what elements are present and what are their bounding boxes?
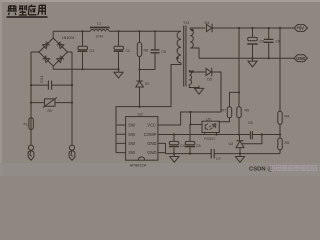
node: CX1-left junction (30, 84, 32, 86)
wire: SW pin stubs (116, 125, 126, 153)
node: C4 top (173, 133, 175, 135)
capacitor CY (Y-cap) (211, 149, 214, 159)
wire: clamp node (140, 69, 156, 71)
svg-text:D5: D5 (207, 78, 212, 82)
resistor R4 (279, 28, 281, 138)
svg-text:TX1: TX1 (183, 21, 190, 25)
wire: D5 to VCC drop (212, 72, 221, 112)
secondary winding (output) (190, 30, 193, 49)
svg-text:U2: U2 (229, 142, 234, 146)
diode D5 (206, 68, 212, 76)
capacitor C3 (82, 31, 84, 69)
node: primary phase dot (176, 57, 179, 60)
ground: output (248, 58, 257, 67)
svg-text:SW: SW (128, 123, 135, 128)
wire: opto emitter stub (204, 133, 206, 135)
bridge diode D2 (right-top arm) (57, 42, 64, 49)
svg-text:VCC: VCC (147, 123, 156, 128)
wire: left AC vertical (30, 52, 32, 145)
svg-text:R4: R4 (285, 115, 290, 119)
svg-text:C6: C6 (248, 121, 253, 125)
wire: VCC pin path (158, 112, 221, 125)
bridge diode D3 (left-bottom arm) (43, 56, 50, 63)
wire: -DC bottom rail (53, 68, 118, 70)
wire: aux bottom to ground (189, 85, 199, 89)
node: aux phase dot (191, 70, 194, 73)
title 典型应用 (7, 5, 45, 16)
svg-text:GND: GND (147, 141, 156, 146)
aux winding (189, 71, 191, 85)
capacitor C2 (118, 31, 120, 69)
wire: CX1 line (31, 84, 72, 86)
wire: primary bottom to SW (116, 63, 181, 153)
fuse F1 (29, 118, 33, 130)
wire: secondary bottom to output return (190, 48, 199, 58)
diode D2 (136, 70, 144, 107)
svg-text:RV: RV (48, 109, 54, 113)
svg-text:CX1: CX1 (39, 74, 44, 83)
svg-text:PC817: PC817 (204, 137, 215, 141)
svg-text:D2: D2 (145, 82, 150, 86)
svg-text:R7: R7 (222, 109, 227, 113)
wire: TL431 ref (242, 135, 262, 144)
ground: -DC bus (114, 69, 123, 78)
core (184, 26, 186, 87)
wire: VCC cap branch (190, 112, 202, 141)
bridge diode D4a (right-bottom arm) (57, 56, 64, 63)
connector AC pin 1 (28, 145, 33, 150)
wire: primary ground rail (166, 150, 281, 154)
watermark CSDN (249, 166, 316, 173)
svg-text:C8: C8 (260, 40, 265, 44)
wire: aux top to D5 (189, 71, 205, 73)
node: RV-left junction (30, 102, 32, 104)
svg-text:SW: SW (128, 141, 135, 146)
wire: bridge bottom to -bus (52, 66, 54, 69)
ground: TL431 (235, 154, 244, 163)
resistor R6 (238, 28, 240, 135)
opto internals: phototransistor + LED (205, 123, 208, 130)
capacitor C4 (173, 135, 175, 142)
diode D4 (207, 24, 213, 32)
svg-text:CY: CY (216, 157, 222, 161)
svg-text:U5: U5 (206, 117, 211, 121)
capacitor C5 (vcc) (185, 141, 195, 144)
svg-text:R8: R8 (144, 49, 149, 53)
node: secondary phase dot (191, 29, 194, 32)
svg-text:COMP: COMP (144, 132, 157, 137)
wire: GND pins bracket (158, 143, 166, 153)
svg-text:L1: L1 (97, 22, 101, 26)
wire: GND rail (199, 57, 294, 59)
svg-text:GND: GND (296, 56, 305, 61)
svg-text:GND: GND (147, 150, 156, 155)
TL431 U2 (236, 135, 244, 154)
svg-text:C3: C3 (90, 49, 95, 53)
bridge rectifier 1N4004 (39, 38, 68, 66)
svg-text:CSDN @: CSDN @ (249, 167, 273, 173)
wire: secondary top to D4 (190, 28, 205, 30)
node: CX1-right junction (71, 84, 73, 86)
wire: opto LED anode to R7 (219, 118, 229, 122)
bridge diode D1 (left-top arm) (43, 42, 50, 49)
svg-text:C2: C2 (126, 49, 131, 53)
capacitor C8 (252, 28, 254, 58)
svg-text:D4: D4 (205, 21, 210, 25)
connector +5V out (294, 25, 308, 32)
svg-text:R6: R6 (245, 109, 250, 113)
svg-text:SW: SW (128, 150, 135, 155)
wire: right AC vertical (71, 52, 73, 145)
svg-text:1mH: 1mH (96, 34, 104, 38)
capacitor C6 (comp) (250, 131, 252, 139)
svg-text:C5: C5 (162, 50, 167, 54)
型 (19, 5, 27, 15)
primary winding (177, 31, 181, 63)
resistor R7 (227, 107, 231, 118)
wire: bridge right corner feed (68, 51, 73, 53)
应 (28, 5, 36, 15)
connector GND out (294, 55, 308, 62)
svg-text:C9: C9 (275, 40, 280, 44)
svg-text:+5V: +5V (297, 26, 305, 31)
用 (38, 5, 46, 15)
svg-text:1N4004: 1N4004 (62, 36, 75, 40)
wire: RV line (31, 102, 72, 104)
title underline (7, 16, 48, 18)
inductor L1 1mH (90, 27, 110, 29)
resistor R8 (139, 31, 141, 69)
ground: IC/primary (170, 154, 179, 163)
connector AC pin 2 (69, 145, 74, 150)
wire: +DC top rail (53, 30, 181, 32)
svg-text:AP8022A: AP8022A (130, 163, 147, 168)
典 (7, 5, 17, 15)
svg-text:R5: R5 (285, 141, 290, 145)
wire: bridge top to +bus (52, 31, 54, 38)
wire: bridge left corner feed (31, 51, 39, 53)
svg-text:U3: U3 (138, 111, 144, 116)
resistor R5 (278, 138, 282, 150)
capacitor C9 (268, 28, 270, 58)
svg-text:F1: F1 (24, 123, 28, 127)
svg-text:C5: C5 (196, 144, 201, 148)
node: RV-right junction (71, 102, 73, 104)
wire: +5V rail (212, 27, 294, 29)
wire: opto LED cathode drop (216, 133, 218, 135)
wire: COMP / feedback line (158, 134, 280, 136)
svg-text:SW: SW (128, 132, 135, 137)
wire: R7 top (230, 92, 240, 106)
ground: aux winding (194, 86, 203, 95)
svg-text:C4: C4 (180, 144, 185, 148)
capacitor CX1 (48, 81, 51, 90)
varistor RV (43, 97, 57, 107)
capacitor C5 (154, 31, 156, 69)
